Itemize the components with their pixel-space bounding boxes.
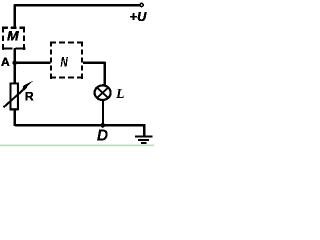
svg-text:D: D [97,127,108,144]
svg-text:A: A [1,55,10,69]
svg-text:R: R [25,89,34,103]
svg-text:M: M [7,28,19,44]
svg-text:N: N [61,54,68,69]
svg-text:L: L [115,86,124,101]
svg-text:+U: +U [130,9,147,24]
